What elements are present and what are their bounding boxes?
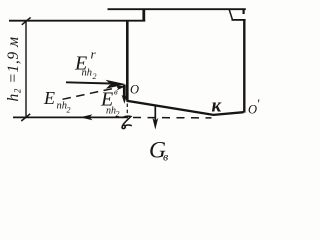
svg-text:в: в xyxy=(163,150,168,164)
svg-text:к: к xyxy=(212,96,223,117)
svg-text:2: 2 xyxy=(67,106,71,115)
svg-text:nh: nh xyxy=(106,106,116,117)
svg-text:2: 2 xyxy=(116,110,120,119)
svg-text:nh: nh xyxy=(82,68,93,79)
svg-text:2: 2 xyxy=(93,72,97,81)
svg-text:nh: nh xyxy=(57,101,68,112)
svg-text:O: O xyxy=(130,83,139,97)
svg-text:в: в xyxy=(114,87,118,97)
svg-text:E: E xyxy=(43,88,55,108)
svg-text:′: ′ xyxy=(257,96,260,111)
